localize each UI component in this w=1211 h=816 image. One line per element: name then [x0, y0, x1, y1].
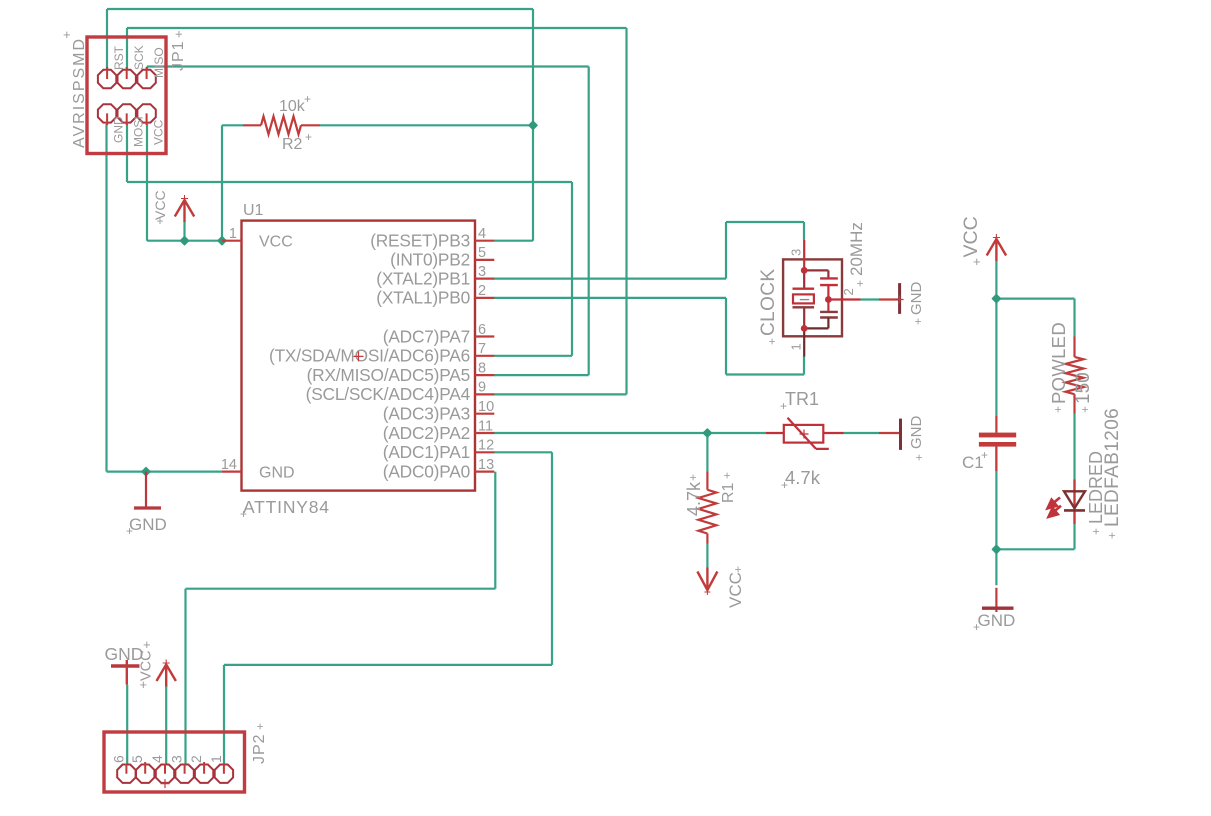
GND symbol left — [134, 472, 161, 508]
svg-text:GND: GND — [978, 611, 1016, 630]
wire PA0 net to JP2 pin3 — [186, 472, 496, 765]
svg-text:R1: R1 — [720, 482, 737, 503]
LED LEDRED — [1064, 480, 1085, 525]
svg-text:+: + — [780, 399, 787, 413]
svg-text:2: 2 — [188, 755, 204, 763]
resonator bottom branch — [804, 318, 828, 329]
svg-text:1: 1 — [229, 226, 237, 242]
JP1 pin stubs — [107, 67, 147, 125]
connector JP2 frame — [104, 732, 245, 792]
svg-text:GND: GND — [112, 116, 126, 143]
wire LED to bottom — [996, 524, 1074, 549]
svg-text:(SCL/SCK/ADC4)PA4: (SCL/SCK/ADC4)PA4 — [306, 384, 471, 404]
C1 leads — [995, 416, 997, 471]
wire MOSI net — [127, 124, 572, 356]
svg-text:+: + — [140, 677, 148, 692]
resonator pin2 lead — [828, 298, 860, 300]
U1 right pin labels — [269, 231, 471, 482]
svg-text:3: 3 — [169, 755, 185, 763]
svg-text:3: 3 — [789, 249, 804, 256]
junction PA2/R1 — [702, 428, 712, 438]
svg-text:+: + — [1051, 406, 1065, 413]
svg-text:(INT0)PB2: (INT0)PB2 — [390, 250, 470, 270]
svg-text:1: 1 — [789, 343, 804, 350]
svg-text:VCC: VCC — [259, 234, 293, 251]
VCC symbol below R1 (down arrow) — [697, 568, 717, 596]
VCC symbol JP2 — [157, 660, 176, 687]
wire XTAL2 net — [494, 222, 804, 279]
svg-text:11: 11 — [478, 418, 493, 434]
svg-text:4: 4 — [149, 755, 165, 763]
capacitor C1 — [979, 433, 1016, 447]
wire MISO rail — [147, 67, 589, 376]
svg-text:150: 150 — [1073, 372, 1094, 404]
svg-text:GND: GND — [259, 464, 295, 481]
svg-text:+: + — [853, 280, 867, 287]
svg-text:+: + — [973, 254, 981, 269]
svg-text:+: + — [981, 448, 988, 462]
LED arrows — [1048, 498, 1062, 517]
wire JP2 VCC — [165, 684, 167, 765]
svg-text:1: 1 — [208, 755, 224, 763]
resonator top branch — [804, 270, 828, 277]
svg-text:+: + — [240, 507, 247, 521]
crystal body — [793, 294, 814, 303]
svg-text:4.7k: 4.7k — [785, 467, 821, 488]
svg-text:5: 5 — [129, 755, 145, 763]
svg-text:+: + — [126, 524, 133, 538]
svg-text:POWLED: POWLED — [1048, 322, 1069, 404]
svg-text:10: 10 — [478, 399, 494, 415]
svg-text:GND: GND — [908, 282, 925, 316]
wire R1 top — [706, 433, 708, 472]
U1 right pin stubs — [475, 241, 494, 472]
U1 origin cross — [354, 351, 364, 361]
junction VCC pin1 — [217, 236, 227, 246]
U1 left pin stubs — [222, 241, 242, 472]
thermistor TR1 — [766, 418, 844, 449]
svg-text:ATTINY84: ATTINY84 — [243, 497, 330, 517]
resonator inner vertical — [803, 270, 805, 328]
IC U1 body — [242, 221, 476, 491]
svg-text:VCC: VCC — [960, 216, 982, 257]
resonator junction dots — [801, 267, 808, 274]
svg-text:LEDFAB1206: LEDFAB1206 — [1102, 408, 1123, 527]
svg-text:MOSI: MOSI — [132, 116, 146, 147]
GND symbol TR1 — [879, 419, 901, 450]
svg-text:8: 8 — [478, 360, 486, 376]
svg-text:+: + — [911, 318, 925, 325]
connector JP1 frame — [87, 37, 166, 154]
svg-text:RST: RST — [112, 45, 126, 70]
svg-text:+: + — [171, 30, 186, 38]
svg-text:VCC: VCC — [726, 572, 745, 608]
svg-text:(RX/MISO/ADC5)PA5: (RX/MISO/ADC5)PA5 — [307, 365, 470, 385]
wire C1 top — [995, 299, 997, 416]
svg-text:R2: R2 — [282, 136, 303, 153]
svg-text:GND: GND — [129, 515, 167, 534]
svg-text:JP1: JP1 — [170, 40, 187, 71]
svg-text:+: + — [253, 723, 267, 730]
svg-text:SCK: SCK — [132, 45, 146, 70]
svg-text:+: + — [157, 214, 164, 228]
svg-text:4: 4 — [478, 226, 486, 242]
resistor POWLED 150 — [1066, 337, 1084, 414]
JP2 pin numbers — [110, 755, 223, 763]
svg-text:+: + — [731, 566, 745, 573]
crystal plates — [793, 288, 815, 290]
svg-text:+: + — [1105, 532, 1119, 539]
svg-text:9: 9 — [478, 380, 486, 396]
svg-text:+: + — [304, 92, 311, 106]
wire clock pin2 to GND — [861, 298, 880, 300]
VCC symbol right — [987, 234, 1006, 261]
svg-text:(TX/SDA/MOSI/ADC6)PA6: (TX/SDA/MOSI/ADC6)PA6 — [269, 346, 470, 366]
svg-text:13: 13 — [478, 457, 494, 473]
svg-text:14: 14 — [221, 457, 237, 473]
wire VCC left net — [147, 124, 222, 241]
junction bottom right — [991, 544, 1001, 554]
resistor R1 — [698, 472, 716, 544]
svg-text:(RESET)PB3: (RESET)PB3 — [370, 231, 470, 251]
wire XTAL1 net — [494, 298, 804, 375]
svg-text:6: 6 — [110, 755, 126, 763]
svg-text:20MHz: 20MHz — [847, 222, 866, 276]
junction VCC arrow — [179, 236, 189, 246]
svg-text:GND: GND — [908, 416, 925, 450]
resonator CLOCK outer box — [783, 259, 842, 336]
TR1 origin cross — [800, 430, 809, 439]
svg-text:(ADC7)PA7: (ADC7)PA7 — [383, 326, 470, 346]
junction VCC right top — [991, 294, 1001, 304]
VCC symbol left — [175, 195, 194, 222]
wire JP2 GND — [126, 685, 128, 765]
svg-text:2: 2 — [841, 288, 856, 295]
wire GND left net — [107, 124, 223, 472]
svg-text:+: + — [765, 338, 779, 345]
svg-text:AVRISPSMD: AVRISPSMD — [71, 37, 88, 148]
svg-text:3: 3 — [478, 264, 486, 280]
svg-text:7: 7 — [478, 341, 486, 357]
wire POWLED to LED — [1073, 414, 1075, 480]
svg-text:MISO: MISO — [152, 47, 166, 78]
svg-text:+: + — [305, 130, 312, 144]
wire PA1 net to JP2 pin1 — [224, 452, 552, 765]
junction R2/RST — [528, 120, 538, 130]
wire SCK rail — [127, 28, 627, 394]
wire R1 bottom to VCC — [706, 544, 708, 568]
svg-text:12: 12 — [478, 438, 494, 454]
svg-text:+: + — [143, 637, 151, 652]
svg-text:6: 6 — [478, 322, 486, 338]
wire VCC right net — [996, 261, 1074, 337]
svg-text:(ADC1)PA1: (ADC1)PA1 — [383, 442, 470, 462]
svg-text:(ADC2)PA2: (ADC2)PA2 — [383, 423, 470, 443]
wire RST rail top — [107, 9, 1075, 765]
svg-text:+: + — [973, 620, 980, 634]
svg-text:(ADC0)PA0: (ADC0)PA0 — [383, 461, 470, 481]
svg-text:(XTAL2)PB1: (XTAL2)PB1 — [376, 268, 470, 288]
svg-text:+: + — [1089, 528, 1103, 535]
resonator bottom cap — [820, 312, 838, 318]
svg-text:+: + — [1078, 406, 1092, 413]
svg-text:+: + — [63, 27, 71, 42]
svg-text:TR1: TR1 — [785, 389, 819, 409]
resonator mid vertical — [827, 285, 829, 312]
svg-text:+: + — [781, 478, 788, 492]
JP2 pin stubs — [126, 762, 223, 774]
wire C1 bottom — [995, 447, 997, 586]
svg-text:+: + — [912, 454, 926, 461]
svg-text:5: 5 — [478, 245, 486, 261]
junction GND pin14 — [141, 467, 151, 477]
U1 right pin numbers — [478, 226, 494, 473]
wire R2 right to RST — [320, 124, 533, 126]
resonator top cap — [820, 278, 838, 285]
resonator pin3 stub — [803, 240, 805, 270]
wire R2 left to VCC — [222, 125, 243, 240]
GND symbol bottom right — [982, 588, 1014, 612]
svg-text:(XTAL1)PB0: (XTAL1)PB0 — [376, 288, 470, 308]
wire PA2 to TR1 — [494, 432, 766, 434]
svg-text:+: + — [686, 474, 700, 481]
svg-text:2: 2 — [478, 283, 486, 299]
JP2 pads — [117, 765, 233, 783]
GND symbol JP2 — [111, 660, 140, 685]
svg-text:4.7k: 4.7k — [684, 481, 704, 516]
JP2 origin cross — [161, 779, 170, 788]
resonator pin1 stub — [803, 328, 805, 356]
GND symbol clock — [879, 283, 904, 314]
svg-text:(ADC3)PA3: (ADC3)PA3 — [383, 404, 470, 424]
svg-text:JP2: JP2 — [251, 733, 268, 764]
svg-text:+: + — [720, 472, 734, 479]
JP1 pads row1 — [98, 70, 156, 123]
resistor R2 — [243, 116, 320, 134]
svg-text:VCC: VCC — [152, 119, 166, 145]
wire TR1 to GND — [844, 432, 880, 434]
svg-text:CLOCK: CLOCK — [758, 269, 779, 336]
svg-text:U1: U1 — [243, 202, 264, 219]
svg-text:10k: 10k — [279, 98, 306, 115]
